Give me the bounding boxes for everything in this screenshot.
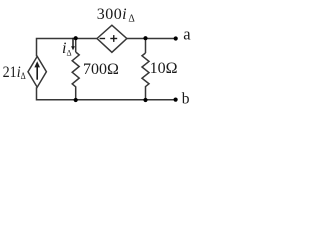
dependent voltage source 300i-delta diamond [97,25,127,52]
svg-text:700Ω: 700Ω [83,61,119,78]
junction node top of 700 ohm [74,36,78,40]
junction node bottom of 10 ohm [143,98,147,102]
svg-text:10Ω: 10Ω [150,60,178,77]
resistor 10 ohm zigzag [142,53,149,100]
svg-text:21iΔ: 21iΔ [3,64,27,81]
terminal b node [174,98,178,102]
wire: top-left loop (top wire + left vertical upper) [37,39,98,57]
wire: left vertical lower + bottom wire to terminal b [37,87,176,100]
wire: 700 ohm branch upper lead [75,39,77,53]
arrow inside left source (points up) [36,67,38,80]
junction node bottom of 700 ohm [74,98,78,102]
wire: top right from source to terminal a [127,38,176,40]
dependent current source 21i-delta diamond [28,56,46,87]
minus sign inside source [100,38,106,40]
svg-text:a: a [183,25,191,44]
resistor 700 ohm zigzag [72,52,79,100]
svg-text:iΔ: iΔ [62,40,72,58]
terminal a node [174,36,178,40]
plus sign inside source [110,38,117,40]
wire: 10 ohm branch upper lead [145,39,147,54]
svg-text:b: b [182,91,190,108]
current arrow i-delta (points down) [72,38,74,47]
junction node top of 10 ohm [143,36,147,40]
svg-text:300iΔ: 300iΔ [97,6,136,25]
